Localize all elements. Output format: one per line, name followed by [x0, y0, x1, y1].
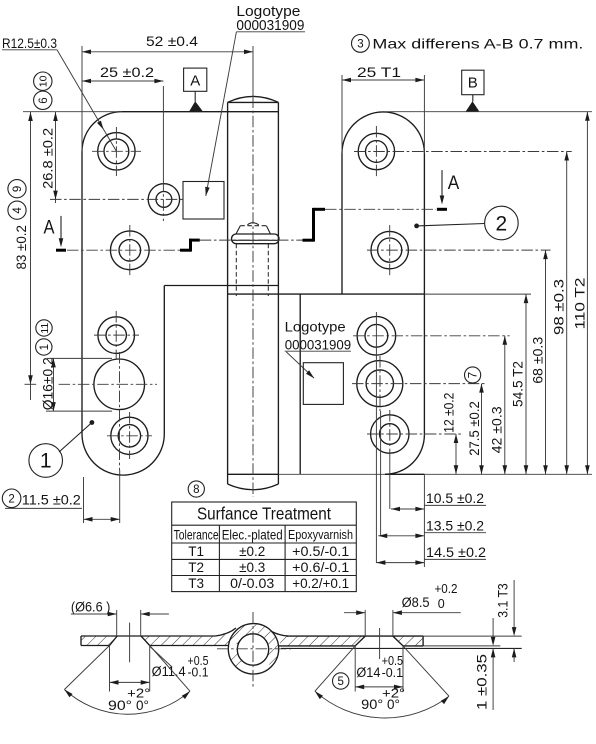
logotype 2 square [303, 363, 343, 405]
hole L3 [110, 231, 149, 270]
column R5 extension down [389, 459, 391, 509]
dim 12 vertical [455, 434, 457, 474]
svg-text:+0.2: +0.2 [435, 582, 458, 596]
right leaf right edge [423, 153, 425, 435]
left strip top edge [81, 635, 215, 637]
svg-text:25 T1: 25 T1 [357, 64, 401, 80]
dim 1 +-0.35 [492, 618, 494, 642]
note circles 6 and 10 [34, 91, 52, 109]
barrel top dome [228, 96, 279, 102]
dim 25T1 extensions [341, 75, 343, 153]
right leaf bottom corner arc [385, 435, 425, 475]
big hole D16 [94, 359, 145, 410]
left 90deg flank lines [64, 646, 109, 690]
extension top edge left [23, 111, 122, 113]
section line left bar [56, 249, 66, 252]
note 3 max differens [352, 35, 370, 53]
svg-text:25 ±0.2: 25 ±0.2 [100, 64, 154, 80]
svg-text:3: 3 [357, 39, 363, 51]
svg-text:T1: T1 [188, 544, 204, 559]
dim D16 line [53, 358, 55, 411]
right leaf top arc R12.5 [342, 112, 424, 153]
right 90deg arc [315, 691, 449, 718]
hole R5 [371, 415, 409, 453]
svg-text:T3: T3 [188, 576, 204, 591]
svg-text:90°: 90° [108, 698, 132, 713]
crosshair L3 vertical [129, 225, 131, 276]
dim 25T1 line [342, 79, 424, 81]
svg-text:Epoxyvarnish: Epoxyvarnish [288, 527, 353, 542]
svg-text:T2: T2 [188, 560, 204, 575]
svg-text:Surfance Treatment: Surfance Treatment [197, 504, 331, 524]
svg-text:54.5 T2: 54.5 T2 [511, 361, 526, 407]
dim 25 line [82, 80, 163, 82]
logotype 1 square [183, 182, 224, 220]
note circle 8 [188, 481, 204, 497]
svg-text:Ø14: Ø14 [356, 665, 380, 680]
dim 42 vertical [504, 336, 506, 475]
section jog left [180, 249, 191, 252]
left leaf bottom semicircle [82, 434, 164, 475]
crosshair L1 [92, 150, 141, 152]
svg-text:12 ±0.2: 12 ±0.2 [442, 393, 457, 433]
knuckle outer circle [228, 624, 278, 674]
crosshair R3 + extension to 42 dim [353, 335, 510, 337]
crosshair R4 + extension to 27.5 dim [352, 383, 487, 385]
svg-text:Ø11.4: Ø11.4 [152, 664, 186, 679]
left leaf lower right edge [163, 286, 165, 435]
svg-text:R12.5±0.3: R12.5±0.3 [2, 35, 57, 51]
section hatch fills [81, 629, 423, 646]
hole R4 [357, 361, 403, 407]
step edge extension right [424, 293, 531, 295]
left leaf left edge [81, 152, 83, 435]
right leaf left edge [341, 153, 343, 294]
svg-text:110 T2: 110 T2 [573, 278, 588, 330]
pin head top dashed [240, 225, 266, 227]
hole R3 [357, 317, 396, 356]
right edge extension down [423, 474, 425, 567]
right countersink centerline [379, 628, 381, 659]
section arrow A right [441, 170, 443, 200]
svg-text:52 ±0.4: 52 ±0.4 [146, 33, 198, 49]
hidden pin line right [267, 244, 269, 296]
svg-text:Tolerance: Tolerance [174, 528, 219, 543]
pin head dome [247, 223, 258, 225]
svg-text:98 ±0.3: 98 ±0.3 [552, 279, 567, 335]
svg-text:000031909: 000031909 [285, 337, 352, 353]
svg-text:3.1 T3: 3.1 T3 [496, 583, 511, 618]
knuckle inner circle (pin hole) [237, 634, 268, 665]
bearing collar pill [232, 234, 280, 244]
svg-text:B: B [468, 75, 478, 92]
balloon 1 [29, 444, 63, 478]
left 90deg arc [64, 690, 190, 715]
hole R2 [371, 231, 408, 268]
hidden pin line left [235, 244, 237, 296]
section line right run [325, 208, 436, 210]
right strip lower surface line [281, 647, 522, 649]
svg-text:27.5 ±0.2: 27.5 ±0.2 [467, 401, 482, 456]
right strip end cap [422, 636, 424, 646]
svg-text:90°: 90° [361, 697, 383, 712]
dim D8.5 [364, 610, 366, 636]
right 90deg flank lines [315, 646, 355, 691]
right strip bottom edge [278, 645, 355, 647]
svg-text:-0.1: -0.1 [188, 666, 209, 680]
datum B box [462, 70, 484, 95]
svg-text:Ø8.5: Ø8.5 [402, 595, 430, 610]
svg-text:2: 2 [8, 493, 14, 505]
barrel left edge [227, 102, 229, 484]
svg-text:0°: 0° [136, 698, 149, 713]
dim 26.8 line [55, 112, 57, 203]
svg-text:Logotype: Logotype [285, 320, 346, 335]
barrel right edge [277, 102, 279, 484]
logotype 1 leader [206, 32, 237, 196]
svg-text:A: A [190, 73, 200, 90]
svg-text:83 ±0.2: 83 ±0.2 [14, 225, 29, 269]
bottom edge extension right [278, 473, 385, 475]
svg-text:Ø16±0.2: Ø16±0.2 [41, 357, 56, 410]
hole L5 [111, 417, 148, 454]
crosshair L4 [94, 334, 139, 336]
svg-text:2: 2 [496, 213, 508, 236]
barrel centerline [252, 46, 254, 97]
crosshair R1 + extension to 98 dim [354, 151, 572, 153]
left leaf step edge (line A) [164, 285, 278, 287]
dim 27.5 vertical [481, 384, 483, 475]
right countersink sides [355, 636, 365, 646]
svg-text:A: A [44, 217, 55, 239]
left strip end cap [80, 636, 82, 646]
dim D11.4 line [110, 681, 150, 683]
column R1/R3 extension down [375, 312, 377, 563]
datum A box [184, 68, 207, 91]
barrel top cap line [228, 101, 279, 103]
note circle 5 [333, 673, 349, 689]
svg-text:1: 1 [40, 450, 52, 473]
section arrow A left [60, 216, 62, 243]
svg-text:+0.5/-0.1: +0.5/-0.1 [292, 544, 349, 559]
dim 83 bottom tick [25, 383, 37, 385]
right leaf top step edge (line B) [228, 293, 425, 295]
extension 11.5 column [119, 470, 121, 523]
svg-text:11: 11 [39, 323, 51, 334]
note circle 2 + dim 11.5 [2, 489, 21, 508]
right leaf inner bend line [299, 294, 301, 474]
note circles 4 and 9 [8, 201, 26, 219]
pin head trapezoid left side [236, 226, 240, 234]
crosshair L2 + extension [50, 198, 185, 200]
barrel bottom dome [228, 484, 279, 490]
crosshair R2 + extension to 68 dim [367, 249, 551, 251]
knuckle ring hatch [220, 614, 289, 679]
svg-text:5: 5 [337, 676, 343, 688]
barrel bottom cap line [228, 473, 279, 475]
svg-text:1: 1 [39, 344, 51, 350]
crosshair big hole [59, 383, 157, 385]
svg-text:9: 9 [12, 186, 24, 192]
dim 52 line [82, 51, 253, 53]
svg-text:0°: 0° [387, 697, 400, 712]
section line left run [67, 249, 180, 251]
dim 98 vertical [566, 152, 568, 475]
svg-text:10: 10 [38, 75, 50, 87]
logotype 2 leader [286, 352, 314, 378]
hole L4 [98, 317, 135, 354]
right strip top edge [287, 635, 423, 637]
section line right bar [437, 208, 447, 211]
collar seam [232, 239, 280, 241]
svg-text:68 ±0.3: 68 ±0.3 [531, 337, 546, 384]
left leaf corner arc R12.5 [82, 112, 122, 152]
svg-text:A: A [448, 172, 460, 194]
left countersink sides [110, 636, 118, 646]
dim 110 vertical [586, 112, 588, 475]
svg-text:1 ±0.35: 1 ±0.35 [475, 654, 490, 710]
left leaf top edge [122, 111, 279, 113]
table frame [172, 502, 357, 592]
svg-text:±0.2: ±0.2 [239, 544, 265, 559]
dim 83 line [30, 112, 32, 400]
D11.4 leader + text [150, 647, 172, 668]
svg-text:-0.1: -0.1 [382, 666, 404, 680]
svg-text:0/-0.03: 0/-0.03 [230, 576, 274, 591]
knuckle right S-curve [272, 632, 289, 637]
svg-text:10.5 ±0.2: 10.5 ±0.2 [426, 491, 484, 506]
crosshair L5 [107, 435, 152, 437]
extension left edge up [81, 46, 83, 152]
left countersink centerline [129, 623, 131, 663]
section jog right [303, 239, 314, 242]
knuckle centerlines [252, 612, 254, 688]
right leaf bottom edge [385, 473, 425, 475]
crosshair R5 + extension to 12 dim [367, 433, 462, 435]
hole R1 [358, 133, 394, 169]
svg-text:7: 7 [468, 372, 480, 378]
column R4 extension down [380, 411, 382, 536]
svg-text:+0.2/+0.1: +0.2/+0.1 [292, 576, 349, 591]
top edge extension right [386, 111, 592, 113]
svg-text:14.5 ±0.2: 14.5 ±0.2 [426, 545, 486, 560]
svg-text:6: 6 [38, 97, 50, 103]
svg-text:42 ±0.3: 42 ±0.3 [490, 406, 505, 453]
dim D14 line [355, 686, 403, 688]
svg-text:+0.6/-0.1: +0.6/-0.1 [292, 560, 349, 575]
dim D14 extensions [354, 646, 356, 692]
svg-text:8: 8 [193, 484, 199, 496]
svg-text:±0.3: ±0.3 [239, 560, 265, 575]
section line mid run [200, 239, 303, 241]
dim 10.5 [424, 504, 486, 506]
svg-text:Max differens A-B 0.7 mm.: Max differens A-B 0.7 mm. [372, 36, 583, 52]
svg-text:Elec.-plated: Elec.-plated [222, 528, 283, 543]
note circle 7 [465, 367, 481, 383]
note circles 1 and 11 [36, 339, 52, 355]
hole L2 [148, 184, 179, 215]
dim D16 extensions [47, 357, 112, 359]
pin head trapezoid right side [266, 226, 270, 234]
svg-text:11.5 ±0.2: 11.5 ±0.2 [22, 493, 81, 508]
dim 3.1 T3 [513, 580, 515, 632]
hole L1 [98, 133, 135, 170]
svg-text:(Ø6.6 ): (Ø6.6 ) [71, 600, 111, 615]
svg-text:4: 4 [12, 207, 24, 214]
svg-text:0: 0 [438, 597, 445, 611]
dim 14.5 [424, 558, 486, 560]
dim D11.4 extensions [109, 646, 111, 692]
left strip S-curve top [215, 628, 236, 636]
svg-text:26.8 ±0.2: 26.8 ±0.2 [41, 128, 56, 189]
balloon 2 [485, 206, 519, 240]
left strip bottom edge [81, 645, 110, 647]
dim 68 vertical [545, 250, 547, 474]
svg-text:13.5 ±0.2: 13.5 ±0.2 [426, 518, 484, 533]
dim 54.5 vertical [525, 294, 527, 474]
dim 13.5 [424, 532, 486, 534]
